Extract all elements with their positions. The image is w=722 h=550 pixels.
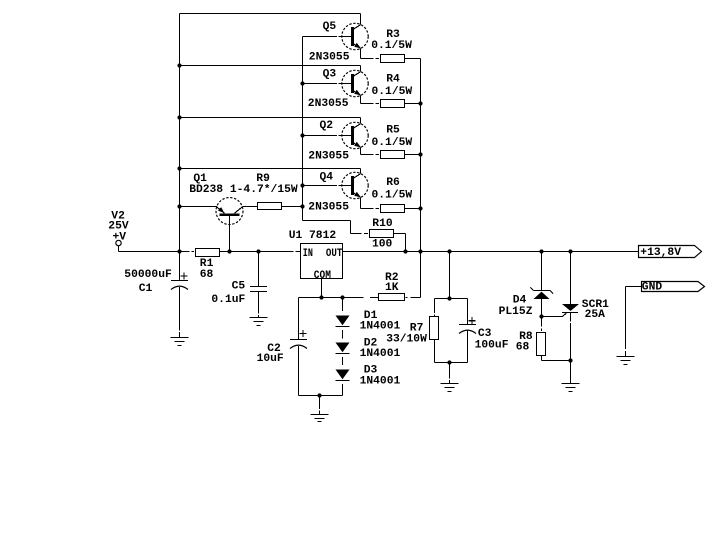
svg-text:R9: R9 <box>256 173 270 185</box>
svg-text:Q3: Q3 <box>323 68 337 80</box>
svg-text:25A: 25A <box>585 309 606 321</box>
svg-text:2N3055: 2N3055 <box>308 98 349 110</box>
svg-text:Q4: Q4 <box>320 171 334 183</box>
svg-text:BD238 1-4.7*/15W: BD238 1-4.7*/15W <box>189 184 298 196</box>
svg-text:1K: 1K <box>385 282 399 294</box>
svg-text:100: 100 <box>372 238 393 250</box>
svg-text:C3: C3 <box>478 328 492 340</box>
svg-text:10uF: 10uF <box>257 353 284 365</box>
svg-text:1N4001: 1N4001 <box>360 375 401 387</box>
svg-text:1N4001: 1N4001 <box>360 320 401 332</box>
svg-text:GND: GND <box>642 281 663 293</box>
svg-text:PL15Z: PL15Z <box>499 306 533 318</box>
svg-text:R6: R6 <box>386 177 400 189</box>
svg-text:COM: COM <box>314 270 331 282</box>
svg-text:0.1/5W: 0.1/5W <box>372 137 413 149</box>
svg-text:+V: +V <box>113 232 127 244</box>
svg-text:0.1uF: 0.1uF <box>211 294 245 306</box>
svg-text:2N3055: 2N3055 <box>308 202 349 214</box>
svg-text:0.1/5W: 0.1/5W <box>372 190 413 202</box>
svg-text:0.1/5W: 0.1/5W <box>371 40 412 52</box>
svg-text:100uF: 100uF <box>475 339 509 351</box>
svg-text:R10: R10 <box>372 218 393 230</box>
svg-text:68: 68 <box>200 269 214 281</box>
svg-text:Q5: Q5 <box>323 21 337 33</box>
svg-text:C1: C1 <box>139 283 153 295</box>
svg-text:U1 7812: U1 7812 <box>289 230 337 242</box>
svg-text:33/10W: 33/10W <box>386 333 427 345</box>
svg-text:R4: R4 <box>386 74 400 86</box>
svg-text:IN: IN <box>303 248 313 260</box>
svg-text:R1: R1 <box>200 258 214 270</box>
svg-text:0.1/5W: 0.1/5W <box>372 86 413 98</box>
svg-text:2N3055: 2N3055 <box>308 150 349 162</box>
svg-text:OUT: OUT <box>326 248 343 260</box>
svg-text:D4: D4 <box>513 294 527 306</box>
svg-text:1N4001: 1N4001 <box>360 348 401 360</box>
svg-text:68: 68 <box>516 342 530 354</box>
svg-text:+13,8V: +13,8V <box>640 247 681 259</box>
svg-text:R5: R5 <box>386 125 400 137</box>
svg-text:R3: R3 <box>386 29 400 41</box>
svg-text:C5: C5 <box>232 280 246 292</box>
svg-text:Q2: Q2 <box>320 120 334 132</box>
svg-text:50000uF: 50000uF <box>124 269 172 281</box>
svg-text:2N3055: 2N3055 <box>309 52 350 64</box>
